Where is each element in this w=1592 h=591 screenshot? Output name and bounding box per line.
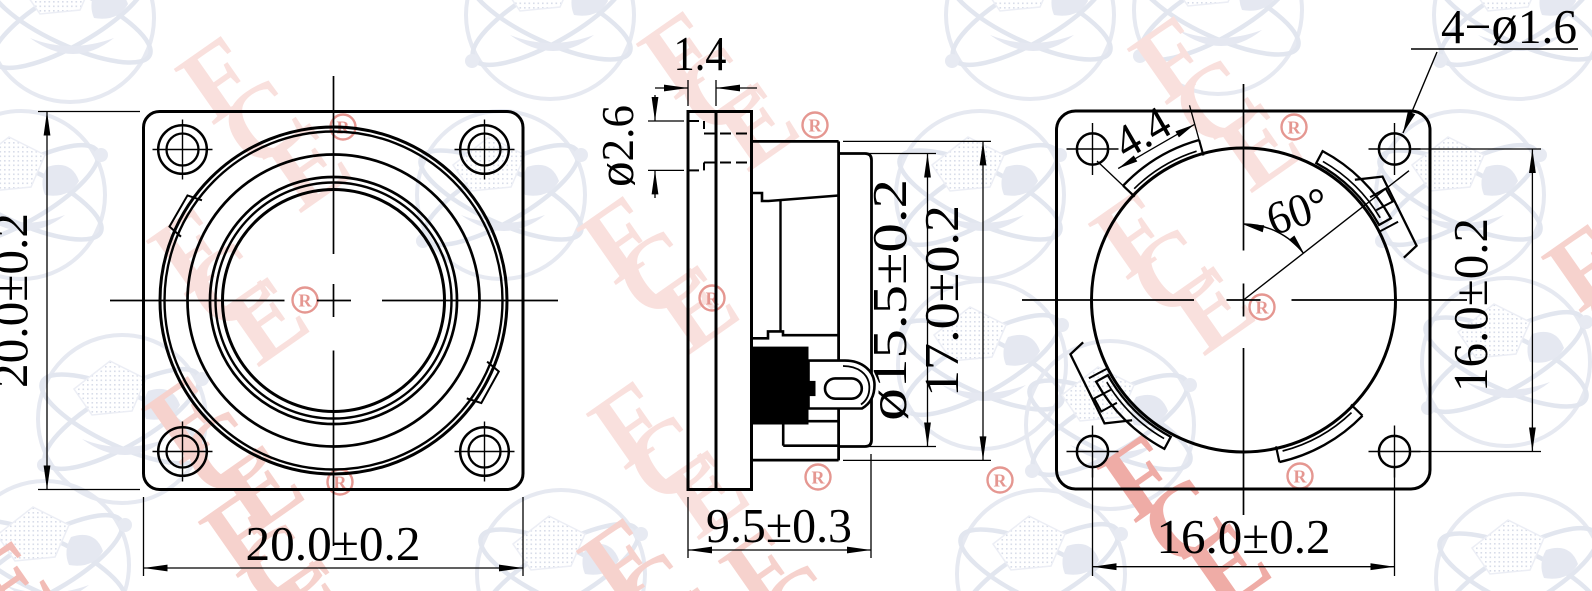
back view centerlines [1022, 299, 1194, 301]
terminal clip top-right [1313, 132, 1430, 265]
front view clip tabs on ring [168, 193, 202, 237]
front mounting hole bottom-right [460, 427, 509, 476]
glue tab bottom-right [1279, 416, 1362, 462]
front mounting hole bottom-left [158, 427, 207, 476]
back mounting hole top-right [1379, 133, 1410, 164]
front view: square flange outline [144, 112, 524, 490]
solder lug [809, 361, 875, 409]
dimension 20.0±0.2 (bottom, width) [143, 497, 145, 576]
front mounting hole top-right [460, 125, 509, 174]
back mounting hole top-left [1077, 133, 1108, 164]
svg-text:16.0±0.2: 16.0±0.2 [1157, 509, 1331, 564]
svg-text:R: R [812, 468, 826, 488]
back view: square flange outline [1057, 111, 1431, 489]
watermark registered marks [331, 115, 356, 140]
svg-text:R: R [299, 291, 313, 311]
terminal nub [809, 381, 816, 396]
front view concentric circles (gasket, surround, cone, dome) [160, 127, 507, 474]
dimension ø15.5±0.2 (magnet dia) [843, 153, 936, 155]
side view: frame/magnet boundary [837, 141, 840, 460]
lower steps [809, 420, 839, 423]
magnet cup [839, 154, 872, 447]
svg-text:20.0±0.2: 20.0±0.2 [0, 213, 38, 388]
svg-text:4−ø1.6: 4−ø1.6 [1441, 0, 1577, 55]
glue tab (4.4) top-left [1123, 140, 1199, 186]
svg-text:R: R [1294, 467, 1308, 487]
watermark logo pattern [0, 0, 161, 102]
dimension 17.0±0.2 (body dia) [843, 140, 991, 142]
svg-text:16.0±0.2: 16.0±0.2 [1443, 218, 1498, 392]
dimension 16.0±0.2 (right) [1412, 148, 1541, 150]
side view: upper frame section [752, 141, 839, 193]
back view main circle (basket rim) [1092, 148, 1396, 452]
dimension 20.0±0.2 (left, height) [38, 111, 140, 113]
svg-text:R: R [809, 116, 823, 136]
svg-text:R: R [994, 471, 1008, 491]
dimension ø2.6 (hole) [648, 120, 684, 122]
front mounting hole top-left [158, 125, 207, 174]
back mounting hole bottom-left [1077, 436, 1108, 467]
side view: flange plate [688, 112, 716, 490]
back mounting hole bottom-right [1379, 436, 1410, 467]
dimension 16.0±0.2 (bottom) [1092, 467, 1094, 576]
svg-text:17.0±0.2: 17.0±0.2 [914, 205, 969, 397]
svg-text:1.4: 1.4 [674, 26, 727, 81]
svg-text:ø2.6: ø2.6 [588, 105, 645, 187]
dimension 1.4 (flange thickness) [687, 80, 689, 106]
terminal block (black) [752, 347, 809, 425]
side view: voice coil former [779, 201, 781, 331]
4.4 tab width dimension [1097, 161, 1126, 189]
hidden mounting hole (dashed) [688, 120, 704, 122]
svg-text:ø15.5±0.2: ø15.5±0.2 [857, 179, 918, 421]
svg-text:20.0±0.2: 20.0±0.2 [246, 516, 421, 571]
front view centerlines [110, 300, 285, 302]
side view: front body plate [716, 112, 752, 490]
side view: lower frame slant with notch [752, 331, 839, 338]
svg-text:9.5±0.3: 9.5±0.3 [706, 498, 852, 553]
svg-text:R: R [1288, 118, 1302, 138]
lug hole [825, 378, 862, 398]
radius line to clip [1244, 171, 1410, 300]
dimension 9.5±0.3 (depth) [687, 497, 689, 558]
